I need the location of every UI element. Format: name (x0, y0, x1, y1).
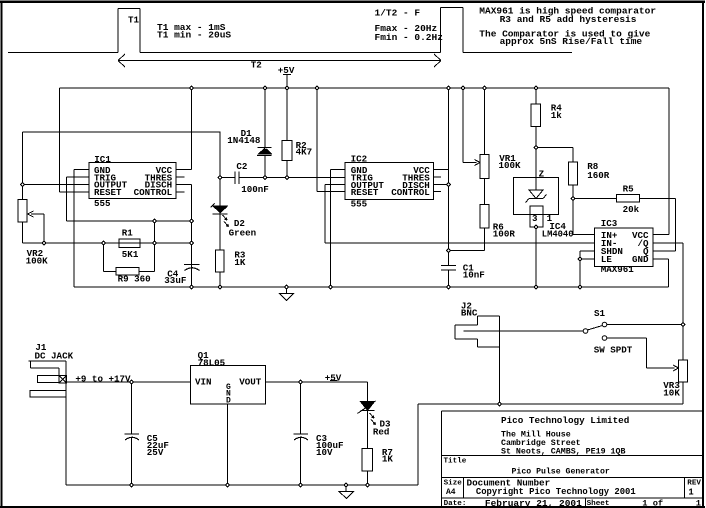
svg-text:R3 and R5 add hysteresis: R3 and R5 add hysteresis (500, 14, 637, 25)
svg-text:SW SPDT: SW SPDT (594, 344, 633, 355)
svg-text:1: 1 (696, 499, 701, 508)
svg-text:33uF: 33uF (164, 275, 186, 286)
svg-text:1/T2 - F: 1/T2 - F (375, 7, 421, 18)
svg-text:1: 1 (688, 487, 693, 497)
svg-text:St Neots, CAMBS, PE19 1QB: St Neots, CAMBS, PE19 1QB (501, 448, 625, 457)
svg-text:GND: GND (632, 254, 649, 265)
svg-text:10V: 10V (316, 447, 333, 458)
svg-text:100nF: 100nF (241, 184, 269, 195)
svg-text:Date:: Date: (444, 500, 467, 508)
svg-text:T1: T1 (128, 15, 140, 26)
svg-text:1K: 1K (234, 257, 246, 268)
svg-text:D: D (226, 396, 231, 405)
svg-text:100K: 100K (499, 160, 522, 171)
svg-text:Sheet: Sheet (587, 500, 610, 508)
svg-text:Green: Green (229, 228, 257, 239)
svg-text:+9 to +17V: +9 to +17V (75, 374, 131, 385)
svg-text:Copyright Pico Technology 2001: Copyright Pico Technology 2001 (476, 487, 636, 497)
svg-text:100K: 100K (26, 256, 49, 267)
svg-text:100R: 100R (493, 229, 516, 240)
svg-text:BNC: BNC (461, 308, 478, 319)
svg-text:R9 360: R9 360 (118, 274, 151, 285)
svg-text:approx 5nS Rise/Fall time: approx 5nS Rise/Fall time (500, 36, 643, 47)
svg-text:1k: 1k (551, 110, 563, 121)
svg-text:Red: Red (373, 427, 390, 438)
svg-text:78L05: 78L05 (198, 357, 226, 368)
svg-text:R5: R5 (623, 184, 635, 195)
svg-text:Fmin - 0.2Hz: Fmin - 0.2Hz (375, 32, 443, 43)
svg-text:555: 555 (351, 199, 368, 210)
svg-text:Pico Pulse Generator: Pico Pulse Generator (512, 466, 610, 476)
svg-text:IC3: IC3 (601, 218, 618, 229)
svg-text:C2: C2 (236, 161, 247, 172)
svg-text:IC2: IC2 (351, 154, 368, 165)
svg-text:A4: A4 (446, 488, 456, 497)
svg-text:T1 min - 20uS: T1 min - 20uS (157, 30, 231, 41)
svg-text:VOUT: VOUT (239, 376, 262, 387)
svg-text:+5V: +5V (325, 373, 342, 384)
svg-text:20k: 20k (623, 204, 640, 215)
svg-text:1N4148: 1N4148 (227, 135, 261, 146)
svg-text:1 of: 1 of (642, 499, 663, 508)
svg-text:5K1: 5K1 (122, 249, 139, 260)
svg-text:160R: 160R (587, 170, 610, 181)
svg-text:RESET: RESET (94, 187, 122, 198)
svg-text:10K: 10K (663, 387, 680, 398)
svg-text:February 21, 2001: February 21, 2001 (485, 498, 582, 508)
svg-text:Cambridge Street: Cambridge Street (501, 438, 581, 448)
svg-text:LE: LE (601, 254, 613, 265)
svg-text:LM4040: LM4040 (542, 229, 574, 239)
svg-text:MAX961: MAX961 (601, 264, 635, 275)
svg-text:The Mill House: The Mill House (501, 429, 571, 439)
svg-text:25V: 25V (147, 447, 164, 458)
svg-text:10nF: 10nF (463, 270, 485, 281)
svg-text:4K7: 4K7 (296, 147, 313, 158)
svg-text:S1: S1 (594, 308, 606, 319)
svg-text:555: 555 (94, 198, 111, 209)
svg-text:R1: R1 (122, 228, 134, 239)
svg-text:VIN: VIN (195, 376, 212, 387)
svg-text:Z: Z (539, 169, 545, 180)
svg-text:Pico Technology Limited: Pico Technology Limited (501, 415, 629, 426)
svg-text:RESET: RESET (351, 187, 379, 198)
svg-text:Size: Size (444, 479, 463, 487)
svg-text:3: 3 (532, 213, 538, 224)
svg-text:Title: Title (444, 458, 467, 466)
svg-text:CONTROL: CONTROL (134, 187, 173, 198)
svg-text:T2: T2 (251, 60, 262, 71)
svg-text:DC JACK: DC JACK (35, 351, 74, 362)
svg-text:CONTROL: CONTROL (391, 187, 430, 198)
svg-text:1K: 1K (382, 454, 394, 465)
svg-text:IC1: IC1 (94, 154, 111, 165)
